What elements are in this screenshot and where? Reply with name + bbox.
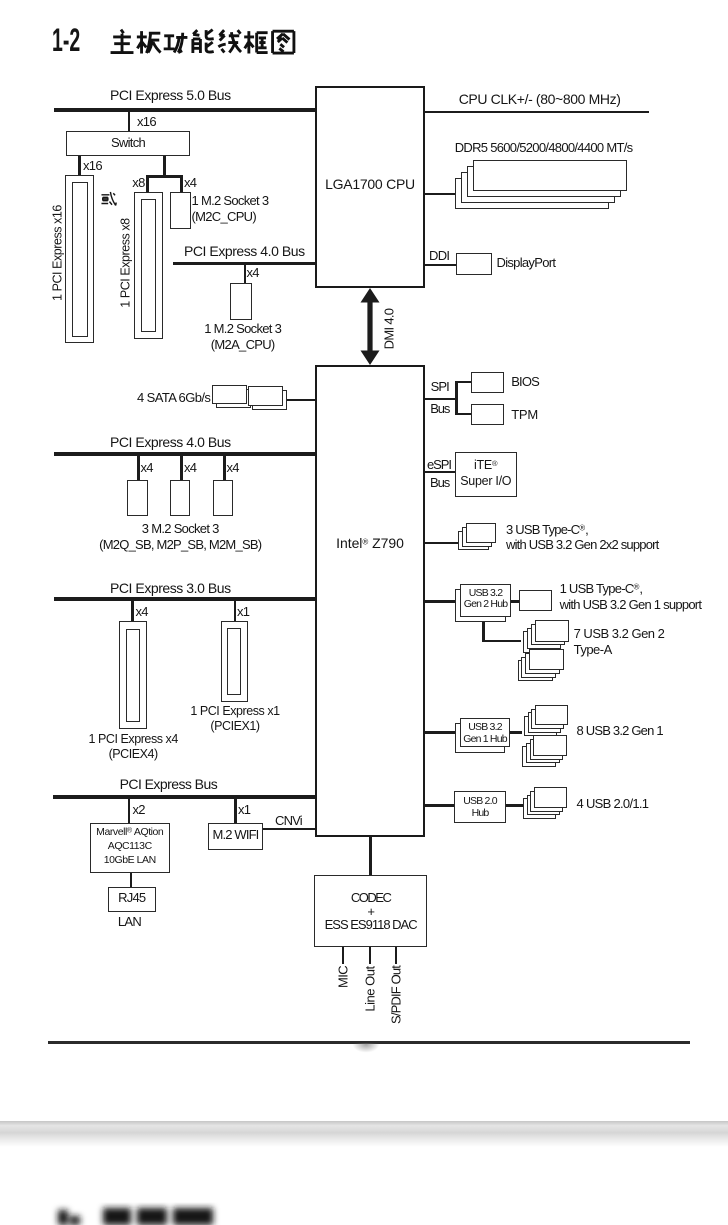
- label SPI: [431, 379, 449, 395]
- label Bus (eSPI): [430, 475, 449, 491]
- label eSPI: [427, 457, 451, 473]
- wire Gen1 hub to stacks: [510, 731, 522, 734]
- wire bus to PCIEX1: [234, 601, 237, 621]
- label CODEC + ESS ES9118 DAC: [314, 891, 427, 932]
- box USB 3.2 Gen 1 Hub shadow: [455, 723, 505, 753]
- label x16 (switch left leg): [83, 158, 102, 174]
- label 1 PCI Express x1 / (PCIEX1): [165, 704, 305, 734]
- wire SPI to TPM: [457, 413, 471, 415]
- label x4 (M2M): [227, 460, 239, 476]
- label LGA1700 CPU: [315, 176, 425, 192]
- box LGA1700 CPU: [315, 86, 425, 288]
- box RJ45: [108, 887, 156, 912]
- wire bus to Marvell LAN: [128, 799, 131, 823]
- wire CNVi: [263, 828, 315, 830]
- page-edge grey band: [0, 1121, 728, 1147]
- wire x8/x4 tee bar: [146, 175, 183, 178]
- wire bus PCIe3.0 (thick): [54, 597, 315, 601]
- char 能: [193, 29, 214, 52]
- usb gen1 lower stack front: [533, 735, 567, 756]
- wire switch right leg: [163, 156, 166, 176]
- label x2 (LAN): [133, 802, 145, 818]
- wire bus to M.2 WIFI: [234, 799, 237, 822]
- slot PCI Express x16 outer: [65, 175, 94, 343]
- wire tee left leg to x8 slot: [146, 176, 149, 192]
- label DDR5 5600/5200/4800/4400 MT/s: [455, 140, 633, 156]
- char 图: [273, 31, 294, 53]
- sata connector pair2 front: [248, 386, 283, 406]
- usb gen2 type-a lower stack back: [518, 660, 553, 681]
- label USB 2.0 Hub: [454, 795, 506, 820]
- label USB 3.2 Gen 2 Hub: [460, 588, 511, 611]
- slot PCIEX4 outer: [119, 621, 147, 729]
- box M.2 socket M2A_CPU: [230, 283, 252, 320]
- box CODEC + ESS ES9118 DAC: [314, 875, 427, 947]
- wire Z790 to USB Type-C stack: [425, 542, 458, 545]
- usb gen1 lower stack 2: [530, 739, 564, 760]
- wire bus to switch: [128, 112, 131, 131]
- usb2 stack back: [523, 798, 556, 819]
- wire CPU to DIMM stack: [425, 193, 456, 196]
- label TPM: [511, 407, 538, 423]
- wire bus PCIe4.0 CPU (thick): [173, 262, 315, 266]
- usb2 stack 2: [530, 791, 563, 812]
- box M.2 WIFI: [208, 823, 263, 851]
- slot PCI Express x8 outer: [134, 192, 163, 340]
- usb gen1 upper stack back: [524, 716, 557, 737]
- slot PCI Express x16 inner: [72, 182, 88, 337]
- box M.2 socket M2C_CPU: [170, 192, 191, 229]
- slot PCIEX1 outer: [221, 621, 248, 702]
- slot PCIEX4 inner: [126, 629, 140, 722]
- wire Z790 to CODEC: [369, 837, 372, 875]
- label 3 M.2 Socket 3: [100, 521, 261, 537]
- label PCI Express 4.0 Bus (chipset): [110, 434, 231, 450]
- wire Z790 to USB2 hub: [425, 804, 454, 807]
- label Intel Z790: [315, 535, 425, 551]
- usb gen1 lower stack 3: [526, 743, 560, 764]
- wire Line Out: [369, 947, 372, 964]
- wire bus to M2M: [223, 456, 226, 480]
- label M.2 WIFI: [208, 827, 263, 843]
- wire Z790 to Gen1 hub: [425, 731, 455, 734]
- label RJ45: [108, 890, 156, 906]
- box DisplayPort connector: [456, 253, 492, 275]
- wire bus to M2A: [244, 265, 247, 283]
- label x4 (M2P): [184, 460, 196, 476]
- footer smudge: [352, 1043, 380, 1053]
- wire Marvell to RJ45: [130, 873, 133, 888]
- wire DDI to DisplayPort: [425, 264, 456, 266]
- usb2 stack 3: [527, 795, 560, 816]
- usb gen2 type-a lower stack 2: [525, 653, 560, 674]
- usb gen1 upper stack 2: [531, 709, 564, 730]
- usb type-c gen1 port box: [519, 590, 553, 611]
- label DisplayPort: [497, 255, 556, 271]
- label x16 (bus to switch): [137, 114, 156, 130]
- box iTE Super I/O: [455, 452, 518, 497]
- char 功: [164, 32, 188, 52]
- wire Gen2 hub to type-c port: [511, 600, 519, 603]
- char 板: [137, 31, 161, 53]
- sata connector pair1 front: [212, 385, 247, 405]
- box Intel Z790: [315, 365, 425, 837]
- label rotated S/PDIF Out: [389, 966, 405, 1024]
- label x1 (WIFI): [238, 802, 250, 818]
- memory module DIMM1 (front): [473, 160, 627, 191]
- label 8 USB 3.2 Gen 1: [577, 723, 663, 739]
- memory module DIMM3: [461, 172, 615, 203]
- label x4 (M2C): [184, 175, 196, 191]
- wire USB2 hub to stack: [506, 804, 523, 807]
- label PCI Express 5.0 Bus: [110, 87, 231, 103]
- wire Gen2 hub down leg: [482, 622, 485, 640]
- box M.2 socket M2M_SB: [213, 480, 234, 516]
- label PCI Express 3.0 Bus: [110, 580, 231, 596]
- usb gen2 type-a upper stack 2: [531, 624, 565, 646]
- usb gen2 type-a lower stack front: [529, 649, 564, 670]
- usb type-c port 2: [462, 527, 493, 547]
- box TPM: [471, 404, 504, 425]
- box Switch: [66, 131, 190, 156]
- label rotated 1 PCI Express x16: [50, 205, 65, 301]
- label 4 SATA 6Gb/s: [137, 390, 210, 406]
- title CJK 主板功能线框图 (SVG strokes): [109, 24, 296, 62]
- label iTE Super I/O: [455, 457, 518, 489]
- label rotated Line Out: [363, 966, 379, 1011]
- label rotated MIC: [336, 966, 352, 988]
- label CNVi: [275, 813, 302, 829]
- wire tee right leg to M2C: [180, 176, 183, 192]
- usb gen1 upper stack 3: [528, 712, 561, 733]
- wire SPI to BIOS: [457, 381, 471, 383]
- label rotated DMI 4.0: [381, 309, 397, 350]
- wire switch to x16 slot: [78, 156, 81, 176]
- label x4 (PCIEX4): [136, 604, 148, 620]
- wire Z790 to Gen2 hub: [425, 600, 455, 603]
- usb gen2 type-a upper stack 3: [527, 628, 561, 650]
- wire bus PCIe5.0 (thick): [54, 108, 316, 112]
- label 或 (or) SVG glyph: [100, 191, 117, 207]
- sata connector pair2 shadow: [252, 390, 287, 410]
- arrow DMI 4.0 (double headed): [354, 288, 386, 365]
- label PCI Express Bus: [120, 776, 218, 792]
- wire bus to M2P: [180, 456, 183, 480]
- wire MIC out: [342, 947, 345, 964]
- label 7 USB 3.2 Gen 2 Type-A: [574, 626, 665, 657]
- wire Gen2 hub to Type-A stacks: [482, 640, 521, 643]
- box M.2 socket M2Q_SB: [127, 480, 148, 516]
- label Switch: [66, 135, 190, 151]
- usb type-c port 3 (back): [458, 531, 489, 551]
- label 1 USB Type-C with USB 3.2 Gen 1 support: [560, 581, 702, 612]
- wire Z790 to iTE: [425, 471, 455, 473]
- box USB 3.2 Gen 2 Hub shadow: [455, 589, 506, 622]
- label PCI Express 4.0 Bus (CPU side): [184, 243, 305, 259]
- usb2 stack front: [534, 787, 567, 808]
- box M.2 socket M2P_SB: [170, 480, 191, 516]
- label DDI: [429, 248, 449, 264]
- label LAN: [105, 914, 154, 930]
- box BIOS: [471, 372, 504, 393]
- wire bus to M2Q: [137, 456, 140, 480]
- label 1 M.2 Socket 3 (M2C_CPU): [192, 193, 269, 224]
- wire Z790 to SPI split: [425, 398, 456, 400]
- box USB 2.0 Hub: [454, 791, 506, 823]
- wire sata to Z790: [287, 399, 316, 401]
- usb type-c port 1 (front): [466, 523, 497, 543]
- label BIOS: [511, 374, 539, 390]
- label x8: [132, 175, 144, 191]
- sata connector pair1 shadow: [216, 389, 251, 409]
- label USB 3.2 Gen 1 Hub: [460, 721, 510, 746]
- memory module DIMM4 (back): [455, 178, 609, 209]
- label (M2Q_SB, M2P_SB, M2M_SB): [99, 537, 262, 553]
- box USB 3.2 Gen 2 Hub: [460, 584, 511, 617]
- slot PCI Express x8 inner: [141, 199, 156, 333]
- label x4 (M2Q): [141, 460, 153, 476]
- label Bus (SPI): [430, 401, 449, 417]
- wire bus to PCIEX4: [131, 601, 134, 621]
- box USB 3.2 Gen 1 Hub: [460, 718, 510, 748]
- label Marvell AQtion AQC113C 10GbE LAN: [90, 825, 170, 867]
- usb gen2 type-a lower stack 3: [521, 657, 556, 678]
- usb gen2 type-a upper stack front: [535, 620, 569, 642]
- wire bus PCIe4.0 chipset (thick): [54, 452, 315, 456]
- wire bus PCIe (thick): [53, 795, 315, 799]
- label 1 M.2 Socket 3 (M2A_CPU): [173, 321, 313, 352]
- label 3 USB Type-C with USB 3.2 Gen 2x2 support: [506, 522, 658, 553]
- wire S/PDIF Out: [395, 947, 398, 964]
- footer rule: [48, 1041, 690, 1044]
- label x4 (M2A): [247, 265, 259, 281]
- box Marvell AQtion AQC113C 10GbE LAN: [90, 823, 170, 873]
- label x1 (PCIEX1): [237, 604, 249, 620]
- label rotated 1 PCI Express x8: [118, 218, 133, 307]
- label 4 USB 2.0/1.1: [577, 796, 649, 812]
- usb gen2 type-a upper stack back: [523, 631, 557, 653]
- title number 1-2: [52, 22, 80, 59]
- slot PCIEX1 inner: [227, 628, 241, 696]
- char 线: [218, 30, 241, 52]
- char 框: [244, 31, 267, 53]
- usb gen1 upper stack front: [535, 705, 568, 726]
- usb gen1 lower stack back: [522, 746, 556, 767]
- blurred next-page heading: [40, 1190, 260, 1225]
- memory module DIMM2: [467, 166, 621, 197]
- wire SPI vertical split: [455, 381, 458, 415]
- label 1 PCI Express x4 / (PCIEX4): [63, 732, 203, 762]
- char 主: [111, 29, 134, 52]
- wire CPU CLK line: [425, 111, 649, 113]
- label CPU CLK+/- (80~800 MHz): [459, 91, 621, 107]
